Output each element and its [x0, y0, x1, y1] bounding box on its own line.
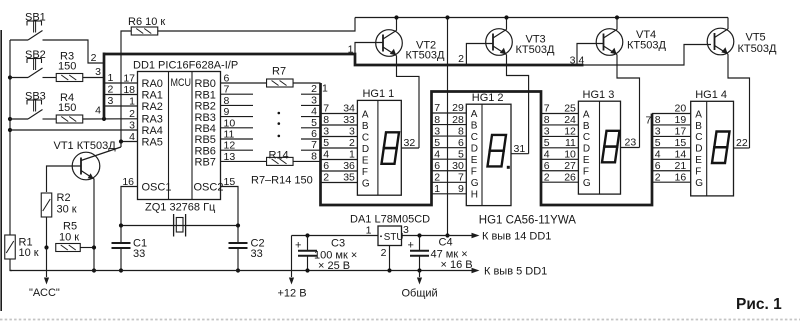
svg-text:4: 4 [129, 131, 135, 143]
svg-text:22: 22 [736, 137, 748, 149]
wire VT4 emitter to HG1.3 pin23 [617, 55, 640, 148]
svg-text:RB3: RB3 [195, 112, 216, 124]
svg-text:32: 32 [404, 137, 416, 149]
resistor R1 10k [5, 235, 16, 259]
wire RA5 stub [121, 141, 138, 143]
svg-text:RA2: RA2 [142, 101, 163, 113]
wire VT1 emitter down [93, 179, 95, 271]
node VT2-rail [394, 15, 398, 19]
left common rail (buttons/R1) [9, 40, 11, 235]
wire OSC2 branch [221, 187, 239, 226]
svg-text:21: 21 [675, 160, 687, 172]
wire +5 output [402, 235, 472, 237]
wire RB1 stub pair [221, 93, 254, 95]
svg-text:RA3: RA3 [142, 114, 163, 126]
svg-text:27: 27 [564, 160, 576, 172]
svg-text:D: D [583, 144, 590, 155]
svg-text:4: 4 [95, 105, 101, 117]
pushbutton SB2 [10, 77, 28, 79]
resistor R2 30k [41, 193, 52, 217]
node crystal-right [236, 223, 240, 227]
svg-text:8: 8 [655, 114, 661, 126]
svg-text:F: F [471, 167, 477, 178]
svg-text:R7: R7 [272, 66, 286, 78]
svg-text:RB5: RB5 [195, 134, 216, 146]
node crystal-left [119, 223, 123, 227]
wire bus exit line2 to RA1 [104, 94, 138, 96]
svg-text:7: 7 [434, 102, 440, 114]
svg-text:КТ503Д: КТ503Д [627, 40, 666, 52]
svg-text:7: 7 [458, 172, 464, 184]
wire C1 branch [120, 226, 122, 244]
svg-text:25: 25 [564, 103, 576, 115]
svg-text:HG1 CA56-11YWA: HG1 CA56-11YWA [479, 215, 576, 227]
wire C4 stubs [419, 236, 421, 251]
svg-text:3: 3 [108, 95, 114, 107]
wire VT3 emitter to HG1.2 pin31 [507, 55, 529, 154]
wire SB2-R3 [43, 77, 57, 79]
svg-text:RB6: RB6 [195, 145, 216, 157]
svg-text:D: D [471, 143, 478, 154]
wire line4 to VT5 base [584, 45, 712, 66]
svg-text:H: H [471, 190, 478, 201]
svg-text:HG1 3: HG1 3 [583, 89, 615, 101]
wire R6 right to +5 rail [158, 18, 355, 32]
svg-text:9: 9 [458, 183, 464, 195]
svg-text:7: 7 [323, 103, 329, 115]
svg-text:RB1: RB1 [195, 89, 216, 101]
wire R4 to RA3 (line4) [83, 118, 138, 120]
svg-text:35: 35 [343, 172, 355, 184]
node C2-gnd [236, 268, 240, 272]
wire VT5 emitter to HG1.4 pin22 [728, 54, 750, 148]
wire SB1 to bus line2 [43, 40, 105, 63]
svg-text:4: 4 [311, 106, 317, 118]
node RA4-rail [8, 128, 12, 132]
svg-text:C: C [583, 132, 590, 143]
svg-text:6: 6 [544, 160, 550, 172]
node SB3-rail [8, 117, 12, 121]
svg-text:10: 10 [564, 149, 576, 161]
node C4-gnd [417, 268, 421, 272]
wire RB4 stub pair [221, 127, 254, 129]
node VT3-rail [504, 15, 508, 19]
transistor VT3 KT503D [486, 29, 513, 56]
wire RA4 to rail [10, 129, 138, 131]
svg-text:E: E [583, 155, 590, 166]
svg-text:MCU: MCU [171, 77, 192, 89]
svg-text:8: 8 [311, 150, 317, 162]
svg-text:19: 19 [675, 114, 687, 126]
transistor VT1 [72, 152, 100, 180]
svg-text:B: B [362, 121, 369, 132]
scan left border artifact [0, 30, 2, 311]
svg-text:8: 8 [434, 114, 440, 126]
svg-text:14: 14 [675, 149, 687, 161]
svg-text:G: G [362, 178, 370, 189]
svg-text:A: A [362, 109, 369, 120]
svg-text:3: 3 [570, 55, 576, 67]
scan bottom edge artifact [0, 319, 800, 321]
svg-text:31: 31 [514, 143, 526, 155]
svg-text:4: 4 [655, 149, 661, 161]
svg-text:6: 6 [323, 160, 329, 172]
svg-text:4: 4 [323, 149, 329, 161]
+5 riser rail-to-regulator [447, 18, 449, 236]
svg-text:3: 3 [129, 120, 135, 132]
wire bus exit line3 to RA2 [104, 105, 138, 107]
svg-text:2: 2 [381, 247, 387, 259]
wire line2 to VT3 base [466, 44, 493, 65]
7-segment indicator HG1.3 [578, 101, 620, 194]
node DA1-gnd [387, 268, 391, 272]
svg-text:КТ503Д: КТ503Д [738, 43, 777, 55]
svg-text:34: 34 [343, 103, 355, 115]
node line4-bus [102, 117, 106, 121]
svg-text:E: E [695, 155, 702, 166]
wire DA1 pin2 to gnd [389, 246, 391, 271]
svg-text:3: 3 [403, 224, 409, 236]
svg-text:28: 28 [452, 114, 464, 126]
svg-text:× 16 В: × 16 В [441, 259, 473, 271]
svg-text:5: 5 [311, 117, 317, 129]
svg-text:18: 18 [123, 84, 135, 96]
svg-text:8: 8 [458, 125, 464, 137]
svg-text:C4: C4 [439, 237, 453, 249]
node riser-rail [445, 15, 449, 19]
wire +12 input [292, 235, 379, 237]
svg-text:R14: R14 [269, 150, 289, 162]
svg-text:G: G [471, 178, 479, 189]
capacitor C3 100uF [298, 250, 317, 252]
wire RB3 stub pair [221, 116, 254, 118]
wire C2 branch [237, 226, 239, 244]
svg-text:D: D [362, 144, 369, 155]
svg-text:3: 3 [544, 126, 550, 138]
wire RB6 stub pair [221, 149, 254, 151]
svg-text:G: G [695, 178, 703, 189]
resistor R3 150 [56, 74, 83, 82]
svg-text:5: 5 [323, 137, 329, 149]
wire RB5 stub pair [221, 138, 254, 140]
svg-text:C3: C3 [331, 238, 345, 250]
svg-text:33: 33 [343, 114, 355, 126]
svg-text:RA0: RA0 [142, 78, 163, 90]
Obschiy (common) arrow [419, 271, 421, 278]
wire VT5 collector [727, 18, 729, 30]
svg-text:6: 6 [458, 137, 464, 149]
arrow to pin5 DD1 [472, 268, 480, 273]
svg-text:3: 3 [349, 126, 355, 138]
svg-text:1: 1 [366, 225, 372, 237]
bus digit-select top horizontal [104, 54, 584, 65]
svg-text:2: 2 [434, 172, 440, 184]
svg-text:R7–R14 150: R7–R14 150 [251, 175, 313, 187]
svg-text:OSC1: OSC1 [142, 182, 172, 194]
node C3-input [305, 233, 309, 237]
svg-text:7: 7 [311, 139, 317, 151]
svg-text:26: 26 [564, 171, 576, 183]
wire R6 left to RA5 node [121, 31, 131, 142]
svg-text:F: F [695, 167, 701, 178]
node R6/VT1-collector/RA5 [119, 139, 123, 143]
transistor VT4 KT503D [596, 29, 623, 56]
svg-text:A: A [583, 109, 590, 120]
node riser-out [445, 233, 449, 237]
capacitor C1 33 [112, 242, 131, 244]
svg-text:C: C [471, 132, 478, 143]
node emitter-gnd [92, 268, 96, 272]
svg-text:B: B [695, 121, 702, 132]
svg-text:10 к: 10 к [19, 247, 39, 259]
7-segment indicator HG1.4 [691, 101, 734, 196]
svg-text:12: 12 [564, 126, 576, 138]
svg-text:HG1 1: HG1 1 [362, 88, 394, 100]
wire OSC1 branch [121, 187, 138, 226]
svg-text:F: F [583, 167, 589, 178]
svg-text:RA5: RA5 [142, 137, 163, 149]
svg-text:2: 2 [311, 83, 317, 95]
svg-text:150: 150 [58, 102, 76, 114]
svg-text:КТ503Д: КТ503Д [516, 44, 555, 56]
svg-text:5: 5 [458, 148, 464, 160]
resistor R14 150 [221, 160, 267, 162]
svg-text:STU: STU [384, 232, 404, 243]
op-amp DD1 PIC16F628A MCU [138, 72, 221, 200]
svg-text:"АСС": "АСС" [29, 287, 60, 299]
transistor VT5 KT503D [707, 28, 734, 55]
+5V top rail [355, 17, 728, 19]
svg-text:RA1: RA1 [142, 90, 163, 102]
7-segment indicator HG1.2 [466, 104, 511, 205]
svg-text:10 к: 10 к [59, 232, 79, 244]
resistor R6 10k [131, 27, 158, 35]
svg-text:5: 5 [544, 137, 550, 149]
svg-text:C: C [362, 132, 369, 143]
svg-text:2: 2 [544, 171, 550, 183]
svg-text:SB2: SB2 [25, 49, 46, 61]
svg-text:20: 20 [675, 103, 687, 115]
svg-text:F: F [362, 167, 368, 178]
ACC feed line [46, 248, 48, 278]
svg-text:КТ503Д: КТ503Д [406, 50, 445, 62]
wire VT2 collector [396, 18, 398, 31]
wire bus exit line1 to RA0 [104, 82, 138, 84]
svg-text:ZQ1 32768 Гц: ZQ1 32768 Гц [145, 202, 216, 214]
svg-text:D: D [695, 144, 702, 155]
svg-text:DD1 PIC16F628A-I/P: DD1 PIC16F628A-I/P [133, 60, 238, 72]
svg-text:Рис. 1: Рис. 1 [736, 296, 782, 313]
svg-text:4: 4 [434, 148, 440, 160]
svg-text:24: 24 [564, 114, 576, 126]
svg-text:6: 6 [655, 160, 661, 172]
svg-text:23: 23 [625, 137, 637, 149]
wire VT4 collector [616, 18, 618, 30]
svg-text:К выв 5 DD1: К выв 5 DD1 [484, 266, 547, 278]
svg-text:VT1 КТ503Д: VT1 КТ503Д [54, 140, 117, 152]
svg-text:1: 1 [434, 183, 440, 195]
svg-text:1: 1 [108, 72, 114, 84]
svg-text:2: 2 [129, 108, 135, 120]
svg-text:5: 5 [434, 137, 440, 149]
wire R3 to bus line3 [83, 77, 104, 79]
svg-text:2: 2 [91, 52, 97, 64]
svg-text:+12 В: +12 В [278, 288, 307, 300]
svg-text:+: + [295, 240, 301, 252]
wire C3 stubs [307, 236, 309, 251]
wire crystal row [121, 225, 238, 227]
svg-text:1: 1 [348, 44, 354, 56]
wire VT2 emitter to HG1.1 pin32 [397, 56, 420, 148]
wire line1 to VT2 base [355, 43, 383, 54]
svg-text:5: 5 [655, 137, 661, 149]
resistor R5 10k [56, 244, 81, 252]
svg-text:3: 3 [311, 94, 317, 106]
svg-text:1: 1 [349, 149, 355, 161]
pushbutton SB3 [10, 118, 28, 120]
arrow to pin14 DD1 [472, 233, 480, 238]
svg-text:R6 10 к: R6 10 к [128, 16, 165, 28]
svg-text:VT5: VT5 [746, 32, 766, 44]
node C3-gnd [305, 268, 309, 272]
svg-text:6: 6 [434, 160, 440, 172]
wire line3 to VT4 base [577, 44, 604, 65]
wire RB2 stub pair [221, 104, 254, 106]
svg-text:7: 7 [646, 115, 652, 127]
capacitor C2 33 [229, 242, 248, 244]
node emitter-R5 [92, 245, 96, 249]
svg-text:G: G [583, 178, 591, 189]
ground rail [10, 270, 472, 272]
segment bus [321, 83, 653, 205]
svg-text:2: 2 [458, 53, 464, 65]
svg-text:17: 17 [675, 126, 687, 138]
svg-text:2: 2 [655, 171, 661, 183]
svg-text:RB2: RB2 [195, 101, 216, 113]
svg-text:4: 4 [544, 149, 550, 161]
node VT4-rail [615, 15, 619, 19]
svg-text:29: 29 [452, 102, 464, 114]
svg-text:16: 16 [675, 171, 687, 183]
svg-text:RB4: RB4 [195, 123, 216, 135]
svg-text:7: 7 [544, 103, 550, 115]
node SB2-rail [8, 75, 12, 79]
bus digit-select vertical [103, 53, 106, 119]
wire VT3 collector [506, 18, 508, 30]
resistor R4 150 [56, 115, 83, 123]
svg-text:3: 3 [95, 66, 101, 78]
svg-text:8: 8 [544, 114, 550, 126]
svg-text:6: 6 [311, 128, 317, 140]
svg-text:17: 17 [123, 73, 135, 85]
ellipsis R8-R13 [278, 112, 281, 115]
node C4-output [417, 233, 421, 237]
capacitor C4 47uF [410, 250, 429, 252]
svg-text:30: 30 [452, 160, 464, 172]
svg-text:SB1: SB1 [25, 12, 46, 24]
wire R2 bottom [46, 217, 48, 248]
svg-text:3: 3 [323, 126, 329, 138]
svg-text:К выв 14 DD1: К выв 14 DD1 [482, 231, 551, 243]
svg-text:E: E [471, 155, 478, 166]
svg-text:4: 4 [579, 55, 585, 67]
svg-text:RB7: RB7 [195, 157, 216, 169]
svg-text:1: 1 [322, 83, 328, 95]
svg-text:A: A [695, 109, 702, 120]
7-segment indicator HG1.1 [357, 100, 401, 195]
svg-text:B: B [583, 121, 590, 132]
transistor VT2 KT503D [376, 30, 403, 57]
arrow +12V input [291, 236, 293, 278]
svg-text:2: 2 [108, 84, 114, 96]
svg-text:R2: R2 [57, 192, 71, 204]
svg-text:2: 2 [323, 172, 329, 184]
pushbutton SB1 [10, 39, 28, 41]
svg-text:1: 1 [129, 96, 135, 108]
svg-text:33: 33 [133, 248, 145, 260]
svg-text:× 25 В: × 25 В [318, 260, 350, 272]
svg-text:E: E [362, 155, 369, 166]
svg-text:33: 33 [251, 248, 263, 260]
svg-text:HG1 4: HG1 4 [695, 89, 727, 101]
wire VT1 base to R2 [47, 166, 82, 192]
resistor R7 150 [221, 82, 267, 84]
svg-text:2: 2 [349, 137, 355, 149]
svg-text:36: 36 [343, 160, 355, 172]
svg-text:C: C [695, 132, 702, 143]
svg-text:3: 3 [655, 126, 661, 138]
svg-text:RA4: RA4 [142, 125, 163, 137]
wire SB3-R4 [43, 118, 57, 120]
wire R5 right to VT1 emitter [80, 247, 94, 249]
svg-text:RB0: RB0 [195, 78, 216, 90]
svg-text:15: 15 [675, 137, 687, 149]
svg-text:SB3: SB3 [25, 91, 46, 103]
svg-text:8: 8 [323, 114, 329, 126]
node R2/R5/ACC [44, 245, 48, 249]
svg-text:30 к: 30 к [57, 204, 77, 216]
svg-text:Общий: Общий [402, 288, 438, 300]
svg-text:DA1 L78M05CD: DA1 L78M05CD [350, 214, 430, 226]
svg-text:OSC2: OSC2 [194, 182, 224, 194]
svg-text:B: B [471, 120, 478, 131]
svg-text:HG1 2: HG1 2 [472, 92, 504, 104]
node C1-gnd [119, 268, 123, 272]
svg-text:+: + [408, 240, 414, 252]
svg-text:150: 150 [58, 61, 76, 73]
svg-text:11: 11 [565, 137, 576, 149]
svg-text:A: A [471, 109, 478, 120]
svg-text:3: 3 [434, 125, 440, 137]
